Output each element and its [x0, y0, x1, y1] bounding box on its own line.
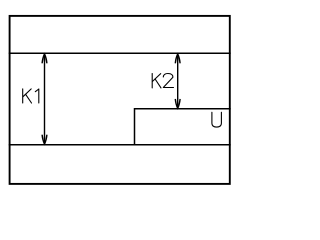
dimension K2 arrow — [175, 54, 180, 109]
wire: header separator line — [9, 52, 231, 54]
outer frame — [10, 16, 230, 184]
box U outline — [135, 109, 231, 145]
label K1 — [23, 89, 39, 103]
label K2 — [152, 74, 173, 88]
dimension K1 arrow — [42, 54, 47, 144]
wire: footer separator line — [9, 144, 231, 146]
label U — [212, 112, 222, 127]
